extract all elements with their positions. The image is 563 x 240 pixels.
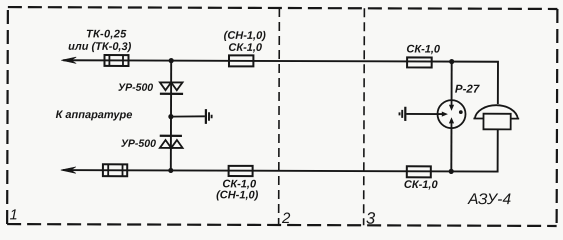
wire: vertical branch through arresters [170,61,172,171]
svg-text:Р-27: Р-27 [455,84,480,96]
svg-text:УР-500: УР-500 [118,82,153,94]
svg-text:АЗУ-4: АЗУ-4 [467,191,511,208]
node: bottom junction of arrester branch [168,168,173,173]
fuse ТК-0,25 (top left) [104,55,128,66]
svg-text:3: 3 [366,210,376,228]
fuse ТК (bottom left) [103,164,127,176]
svg-text:СК-1,0: СК-1,0 [228,42,263,54]
node: middle junction to earth [168,114,173,119]
svg-text:или (ТК-0,3): или (ТК-0,3) [68,41,131,53]
wire: to earth (left group) [171,115,205,118]
svg-text:(СН-1,0): (СН-1,0) [224,30,267,42]
node: top junction at arrester branch [169,58,174,63]
fuse СК-1,0 (top, zone 1) [229,55,253,66]
arrester УР-500 (lower) [160,136,183,148]
arrow on bottom wire (to apparatus) [61,167,76,173]
wire: bottom line b [63,127,498,171]
fuse СК-1,0 (bottom, zone 3) [407,166,431,177]
svg-text:СК-1,0: СК-1,0 [404,179,439,191]
svg-text:(СН-1,0): (СН-1,0) [216,189,259,201]
svg-text:ТК-0,25: ТК-0,25 [86,28,127,40]
svg-text:2: 2 [281,210,291,227]
node: junction on bottom wire zone 3 [449,169,454,174]
svg-text:УР-500: УР-500 [121,138,156,150]
wire: top line a [63,60,498,104]
svg-text:К аппаратуре: К аппаратуре [56,109,133,121]
node: junction on top wire zone 3 [449,59,454,64]
fuse СК-1,0 (bottom, zone 1) [229,166,253,176]
bell (ringer of АЗУ-4) [473,105,519,129]
earth (ground) left group [206,109,212,124]
earth (ground) zone 3 [399,107,405,121]
svg-text:1: 1 [10,207,18,223]
svg-text:СК-1,0: СК-1,0 [406,43,441,55]
zone divider 2/3 [363,8,366,225]
wire: to earth (zone 3) [406,113,437,115]
wire: vertical through arrester Р-27 [450,62,452,172]
arrester Р-27 (three-electrode, circle) [437,100,465,128]
arrester УР-500 (upper, double gap to bar) [160,82,183,93]
arrow on top wire (to apparatus) [61,57,76,63]
fuse СК-1,0 (top, zone 3) [407,57,432,67]
zone divider 1/2 [278,8,281,225]
